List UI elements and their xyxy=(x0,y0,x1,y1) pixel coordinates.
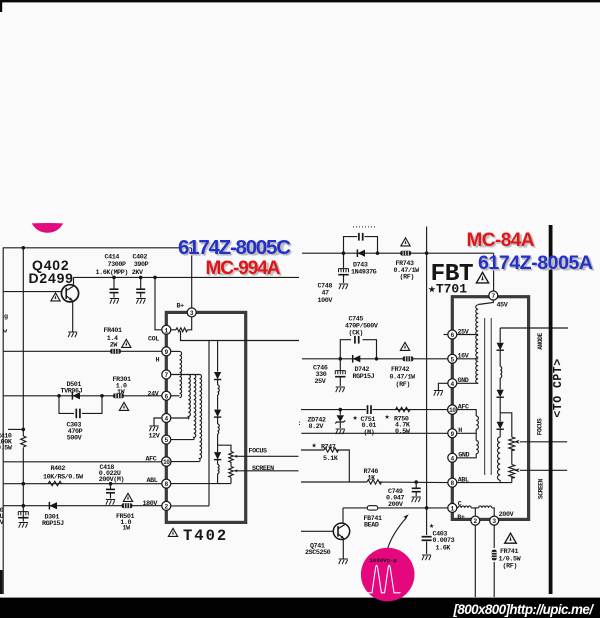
svg-text:COL: COL xyxy=(148,335,159,343)
wire ZD742 lead xyxy=(339,410,341,415)
wire node7 to primary winding xyxy=(478,300,493,305)
svg-text:[800x800]http://upic.me/: [800x800]http://upic.me/ xyxy=(453,602,595,617)
svg-text:180V: 180V xyxy=(143,500,158,508)
junction at (340,409.6) xyxy=(339,408,343,412)
label R402 xyxy=(43,465,84,482)
resistor R746 xyxy=(367,480,382,484)
wire C748 lead xyxy=(343,253,345,268)
svg-text:★T701: ★T701 xyxy=(428,282,467,297)
svg-text:RGP15J: RGP15J xyxy=(42,520,64,528)
resistor R750 xyxy=(396,407,411,411)
svg-text:10K/RS/0.5W: 10K/RS/0.5W xyxy=(43,474,84,482)
svg-text:FR401: FR401 xyxy=(104,327,122,335)
diode HV1 xyxy=(497,343,504,351)
capacitor C414 xyxy=(110,289,119,292)
wire pin5 tap xyxy=(457,358,478,360)
svg-text:45V: 45V xyxy=(497,301,508,309)
node 9 pin H xyxy=(162,347,171,356)
label R410 (clipped at edge) xyxy=(0,433,13,453)
ground at pin4 (FBT) xyxy=(434,391,443,396)
transistor Q402 xyxy=(61,285,78,302)
wire below node3 xyxy=(493,525,495,548)
wire pin10 to AFC coil xyxy=(457,410,476,416)
wire C751 line y409.6 xyxy=(301,409,366,411)
ground below C746 xyxy=(336,387,345,392)
junction at (416,482) xyxy=(414,480,418,484)
ground below C748 xyxy=(339,284,348,289)
wire Q741 collector riser xyxy=(342,508,344,523)
wire C414 lower lead xyxy=(113,293,115,298)
wire C749 lower lead xyxy=(415,492,417,497)
wire stub at R410 top xyxy=(8,428,23,430)
capacitor C751 (series) xyxy=(368,405,372,414)
ground below Q741 xyxy=(339,559,348,564)
faint cropped label above C745 snubber xyxy=(352,226,376,232)
transistor Q741 xyxy=(333,523,349,539)
node 3 pin (FBT bottom) xyxy=(490,516,499,525)
wire R747 line y450 xyxy=(301,449,324,451)
wire C303 bypass left leg xyxy=(59,396,74,414)
warning triangle at T402 label xyxy=(168,528,177,536)
wire node1 to primary zigzag xyxy=(171,329,176,331)
cropped label left edge C540 xyxy=(0,507,4,527)
wire focus divider branch xyxy=(500,413,512,437)
svg-text:7300P: 7300P xyxy=(108,261,126,269)
wire Q402 collector riser xyxy=(73,277,75,285)
wire right B+ vertical x426.6 xyxy=(426,227,428,536)
capacitor C403 (series in x426.6) xyxy=(422,537,432,541)
label R750 xyxy=(394,415,411,436)
junction at (426.6,253) xyxy=(425,251,429,255)
label D501 xyxy=(61,381,83,395)
junction at (114,277) xyxy=(112,276,116,280)
coil H-GND xyxy=(476,441,478,454)
diode DC2 in column xyxy=(214,410,221,418)
label C745 xyxy=(345,316,378,338)
svg-text:200V: 200V xyxy=(499,511,514,519)
fusible resistor FR401 xyxy=(110,349,121,354)
primary winding FBT xyxy=(476,305,478,383)
svg-text:(M): (M) xyxy=(364,429,375,437)
node 8 pin ABL xyxy=(162,479,171,488)
capacitor C745 (snubber) xyxy=(355,336,359,344)
label D742 xyxy=(353,366,375,381)
diode D501 xyxy=(72,392,80,400)
wire between pots xyxy=(230,462,232,467)
ground below Q402 emitter xyxy=(68,332,77,337)
node 10 pin AFC xyxy=(162,457,171,466)
node 10 pin AFC (FBT) xyxy=(448,405,457,414)
label R746 xyxy=(364,468,379,482)
svg-text:ANODE: ANODE xyxy=(537,333,544,350)
winding W1 xyxy=(180,351,182,397)
node 6 pin 24V xyxy=(162,391,171,400)
diode HV3 xyxy=(497,422,504,430)
svg-text:g: g xyxy=(4,313,8,321)
wire node9 to winding W1 xyxy=(171,350,180,352)
wire vertical x23 lower xyxy=(22,448,24,513)
svg-text:H: H xyxy=(156,356,160,364)
wire B+ riser to node3 xyxy=(190,248,193,308)
node 8 pin ABL (FBT) xyxy=(448,478,457,487)
wire C418 lower lead xyxy=(110,493,112,499)
diode HV2 xyxy=(497,390,504,398)
svg-text:200V(M): 200V(M) xyxy=(99,476,124,484)
wire node2 to x209 xyxy=(171,505,209,507)
node 2 pin 180V xyxy=(162,501,171,510)
svg-text:(CK): (CK) xyxy=(349,329,363,337)
wire winding W1 bottom to node6 xyxy=(171,395,180,397)
wire C746 lower lead xyxy=(339,377,341,386)
focus wiper arrow (FBT) xyxy=(514,440,520,444)
winding W3 xyxy=(194,375,196,440)
svg-text:1.6K(MPP): 1.6K(MPP) xyxy=(96,269,129,277)
svg-text:w: w xyxy=(3,328,7,336)
wire 24V line y396 xyxy=(3,395,162,397)
wire COL riser x155 xyxy=(155,277,162,329)
diode D743 xyxy=(357,249,365,257)
wire 180V line y506 xyxy=(3,505,162,507)
ground below C418 xyxy=(106,500,115,505)
svg-text:C: C xyxy=(458,500,462,508)
wire coil to pin9 xyxy=(457,429,476,433)
junction at (141,277) xyxy=(139,276,143,280)
coil small on diode column 2 xyxy=(218,424,220,434)
magenta blob fragment top-left xyxy=(32,223,63,233)
label FB741 xyxy=(364,515,382,530)
primary winding zigzag node1-node3 xyxy=(176,328,187,332)
svg-text:R402: R402 xyxy=(51,465,66,473)
warning triangle at FR741 xyxy=(505,533,517,543)
svg-text:D2499: D2499 xyxy=(29,270,74,286)
wire C746 lead xyxy=(339,359,341,371)
svg-text:(RF): (RF) xyxy=(400,274,414,282)
wire D742 line y359 xyxy=(302,358,448,360)
wire diode column mid segments xyxy=(217,380,219,386)
label FR743 xyxy=(394,260,421,281)
svg-text:12V: 12V xyxy=(149,432,160,440)
wire C744 snubber loop xyxy=(344,237,358,254)
svg-text:T402: T402 xyxy=(183,527,228,545)
wire D743 line y253 xyxy=(302,252,494,254)
capacitor C303 xyxy=(76,409,80,419)
wire AFC line y462 xyxy=(3,461,162,463)
ground at node4 xyxy=(149,426,158,431)
core line 2 xyxy=(490,318,492,475)
node 6 pin 25V xyxy=(448,330,457,339)
wire Q741 emitter xyxy=(342,539,344,559)
wire C418 lead xyxy=(110,484,112,489)
svg-text:★: ★ xyxy=(385,412,390,422)
coil pin2 to pin3 xyxy=(479,506,492,508)
transformer T402 box xyxy=(166,312,245,522)
label C418 xyxy=(99,464,124,484)
ground below C402 xyxy=(136,299,145,304)
label Q741 xyxy=(305,542,331,557)
screen potentiometer xyxy=(229,467,233,478)
wire below FR741 xyxy=(493,562,495,597)
ground below C749 xyxy=(412,497,421,502)
wire node7 header xyxy=(171,374,200,376)
svg-text:1.6K: 1.6K xyxy=(436,545,452,553)
wire top bus y248 xyxy=(3,247,191,249)
fusible resistor FR743 xyxy=(400,251,411,256)
thick CRT bus line xyxy=(549,225,553,594)
node 4 pin xyxy=(162,414,171,423)
wire winding W3 bottom to node5 xyxy=(171,439,194,441)
wire node8 to pot chain xyxy=(171,483,231,485)
junction at (23,506) xyxy=(22,504,26,508)
label C746 xyxy=(313,365,328,386)
svg-text:0.5W: 0.5W xyxy=(0,445,13,453)
node 2 pin (FBT bottom) xyxy=(471,516,480,525)
diode DC3 in column xyxy=(214,452,221,460)
warning triangle at FR401 xyxy=(122,339,131,347)
ferrite bead FB741 xyxy=(367,506,377,510)
electrolytic capacitor C748 xyxy=(338,269,348,275)
label C748 xyxy=(318,283,333,305)
fusible resistor FR501 xyxy=(122,503,133,508)
junction at (377.5,253) xyxy=(376,251,380,255)
capacitor C749 xyxy=(412,488,421,491)
svg-text:500V: 500V xyxy=(67,435,82,443)
label D743 xyxy=(351,262,377,277)
node 1 pin C xyxy=(448,503,457,512)
label FR501 xyxy=(116,513,134,533)
svg-text:★: ★ xyxy=(312,441,317,451)
capacitor C744 (snubber, cropped label) xyxy=(359,233,363,241)
svg-text:25V: 25V xyxy=(458,328,469,336)
annotation arrow to FB741 line xyxy=(388,514,409,548)
wire H line y351 xyxy=(3,350,162,352)
wire Q741 base xyxy=(301,530,334,532)
screen potentiometer (FBT) xyxy=(509,465,515,479)
wire interior vertical x209 xyxy=(208,341,210,506)
svg-text:1N4937G: 1N4937G xyxy=(351,269,377,277)
label C751 xyxy=(361,416,377,437)
svg-text:GND: GND xyxy=(458,377,469,385)
wire R746 line y482 xyxy=(301,481,367,483)
svg-text:0V: 0V xyxy=(0,519,4,527)
wire ANODE line xyxy=(500,327,568,329)
wire HV chain top xyxy=(499,328,501,343)
wire node4 to ground xyxy=(154,418,162,426)
capacitor C402 xyxy=(136,289,145,292)
coil pin1 to pin2 xyxy=(458,506,471,508)
screen wiper arrow (FBT) xyxy=(514,468,520,472)
core line 1 xyxy=(484,318,486,475)
wire pot chain bottom xyxy=(511,477,513,483)
node 4b pin GND2 xyxy=(448,453,457,462)
svg-text::: : xyxy=(298,420,302,428)
wire pin6 outside stub xyxy=(444,334,448,336)
svg-text:SCREEN: SCREEN xyxy=(252,465,274,473)
wire pot branch xyxy=(218,445,231,451)
wire interior diode column x217.6 top xyxy=(217,341,219,372)
svg-text:(RF): (RF) xyxy=(503,563,517,571)
warning triangle at FR501 xyxy=(123,493,132,501)
wire C414 lead xyxy=(113,277,115,289)
label D301 xyxy=(42,514,64,528)
svg-text:TVR06J: TVR06J xyxy=(61,387,83,395)
wire vertical x23 xyxy=(22,248,24,436)
junction at (110,484) xyxy=(109,482,113,486)
header shadows xyxy=(179,231,594,281)
wire Q402 base xyxy=(3,291,61,293)
node 3 pin B+ xyxy=(187,308,196,317)
HV secondary big coil xyxy=(498,437,501,480)
junction at (59,396) xyxy=(57,394,61,398)
ground below C414 xyxy=(110,299,119,304)
svg-text:B+: B+ xyxy=(457,514,465,522)
junction at (102,396) xyxy=(100,394,104,398)
warning triangle at Q402 xyxy=(51,293,60,301)
svg-text:ABL: ABL xyxy=(147,477,158,485)
electrolytic capacitor at x23 (cropped label) xyxy=(18,512,28,518)
svg-text:B+: B+ xyxy=(177,303,185,311)
focus wiper arrow xyxy=(233,455,239,458)
wire ZD742 lower lead xyxy=(339,422,341,428)
svg-text:6174Z-8005A: 6174Z-8005A xyxy=(478,252,593,274)
junction at (426.6,508) xyxy=(425,506,429,510)
wire Q402 emitter xyxy=(72,301,74,331)
wire C402 lower lead xyxy=(140,293,142,298)
top image border xyxy=(0,0,600,2)
electrolytic capacitor C746 xyxy=(335,371,345,377)
label FR741 xyxy=(499,548,522,571)
label C303 xyxy=(67,421,83,442)
svg-text:5.1K: 5.1K xyxy=(323,455,339,463)
wire between FBT pots xyxy=(511,450,513,465)
svg-text:10: 10 xyxy=(449,407,456,414)
svg-text:1000Vp-p: 1000Vp-p xyxy=(370,557,398,564)
wire pin8 to pot chain xyxy=(457,482,512,484)
wire HV coil bottom xyxy=(499,480,501,482)
wire SCREEN out (FBT) xyxy=(520,469,567,471)
resistor R410 (vertical, in x23 line) xyxy=(21,436,26,447)
winding W4 xyxy=(200,375,202,462)
node 7 pin (FBT top) xyxy=(489,291,498,300)
wire damper feed drop xyxy=(181,331,300,341)
label FR742 xyxy=(390,366,417,389)
wire HV chain segments xyxy=(499,350,501,367)
svg-text:★: ★ xyxy=(353,413,358,423)
svg-text:GND: GND xyxy=(458,452,469,460)
wire winding W4 bottom to node10 xyxy=(171,461,200,463)
wire left edge vertical x3.5 xyxy=(2,248,4,594)
warning triangle at FBT label xyxy=(476,272,488,283)
focus potentiometer (FBT) xyxy=(509,437,515,451)
svg-text:10: 10 xyxy=(163,459,170,466)
fusible resistor FR742 xyxy=(403,356,414,361)
wire pin1 to coil xyxy=(457,507,458,509)
svg-text:24V: 24V xyxy=(148,390,159,398)
svg-text:390P: 390P xyxy=(134,261,149,269)
magenta waveform circle xyxy=(361,548,415,602)
label FR301 xyxy=(113,376,131,396)
ground below C403 xyxy=(422,555,431,560)
zener diode ZD742 xyxy=(335,415,345,423)
node 1 pin COL xyxy=(162,325,171,334)
label C403 xyxy=(433,531,455,553)
svg-text:(RF): (RF) xyxy=(396,381,410,389)
warning triangle at FR743 xyxy=(401,238,410,246)
wire collector line y507.9 xyxy=(343,507,367,509)
wire FOCUS out (FBT) xyxy=(520,441,567,443)
svg-text:MC-84A: MC-84A xyxy=(467,230,535,251)
wire R747 to R746 drop xyxy=(337,450,350,482)
junction at (340,359) xyxy=(339,357,343,361)
svg-text:MC-994A: MC-994A xyxy=(206,258,281,279)
svg-text:AFC: AFC xyxy=(146,455,157,463)
svg-text:<TO CPT>: <TO CPT> xyxy=(552,358,565,417)
coil small on diode column 1 xyxy=(218,385,220,395)
junction at (343.5,253) xyxy=(342,251,346,255)
svg-text:200V: 200V xyxy=(388,501,403,509)
coil AFC-H xyxy=(476,416,478,429)
wire Q402 collector bus y277 xyxy=(74,276,300,278)
fusible resistor FR301 xyxy=(113,393,124,398)
svg-text:8.2V: 8.2V xyxy=(309,423,324,431)
svg-text:100V: 100V xyxy=(318,297,333,305)
wire SCREEN out xyxy=(239,470,299,472)
node 9 pin H (FBT) xyxy=(448,429,457,438)
wire pot chain bottom xyxy=(230,478,232,484)
cropped component mark bottom-left edge xyxy=(0,570,3,594)
junction at (23,248) xyxy=(22,246,26,250)
svg-text:AFC: AFC xyxy=(458,403,469,411)
wire primary zigzag to node3 riser xyxy=(188,317,192,330)
wire C403 ground lead xyxy=(426,542,428,555)
label C414 xyxy=(96,254,129,277)
junction at (376.5,359) xyxy=(375,357,379,361)
wire C402 lead xyxy=(140,277,142,289)
wire H line y433.3 xyxy=(301,432,447,434)
ground below x23 cap xyxy=(19,523,28,528)
bottom black banner xyxy=(0,598,600,618)
svg-text:0.5W: 0.5W xyxy=(395,428,411,436)
svg-text:FOCUS: FOCUS xyxy=(537,418,544,435)
wire below node2 xyxy=(474,525,476,597)
diode DC1 in column xyxy=(214,372,221,380)
waveform pulses xyxy=(366,565,401,592)
wire pin6 tap xyxy=(457,334,478,336)
label C402 xyxy=(132,254,149,277)
ground below ZD742 xyxy=(336,429,345,434)
wire pin9 coil segment xyxy=(475,433,477,440)
svg-text:H: H xyxy=(458,427,462,435)
wire C303 bypass right leg xyxy=(82,396,102,414)
wire node7 riser xyxy=(493,253,495,290)
resistor R747 xyxy=(324,448,339,452)
svg-text:16V: 16V xyxy=(458,353,469,361)
diode D742 xyxy=(353,355,361,363)
wire cap lead below x23 dot xyxy=(22,515,24,522)
flyback transformer T701 box xyxy=(452,297,528,520)
resistor R402 xyxy=(48,481,62,485)
focus potentiometer xyxy=(229,452,233,463)
label C749 xyxy=(386,488,404,509)
node 5 pin 12V xyxy=(162,435,171,444)
wire pin4 outside to ground xyxy=(438,383,447,390)
svg-text:FOCUS: FOCUS xyxy=(249,448,267,456)
wire FOCUS out xyxy=(239,455,299,457)
svg-text:2KV: 2KV xyxy=(132,269,143,277)
wire C748 lower lead xyxy=(343,275,345,284)
wire C749 lead xyxy=(415,482,417,488)
wire coil2 connections xyxy=(475,507,478,509)
warning triangle at FR742 xyxy=(400,342,409,350)
